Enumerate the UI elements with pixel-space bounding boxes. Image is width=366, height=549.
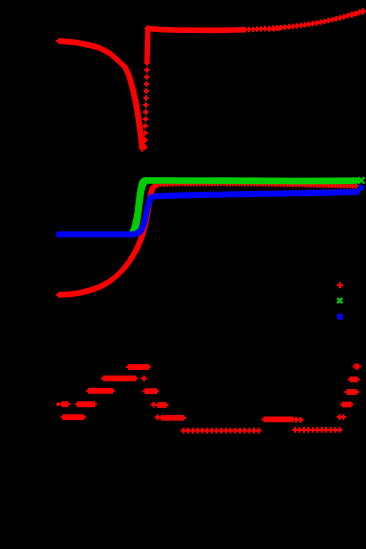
green end tick xyxy=(358,177,364,183)
bottom panel red plus clusters xyxy=(60,364,361,434)
green series xyxy=(130,178,360,237)
legend red plus xyxy=(337,282,343,288)
blue series xyxy=(56,189,360,237)
legend green cross xyxy=(337,298,342,303)
red series top panel xyxy=(56,8,366,297)
blue end tick xyxy=(358,185,364,191)
legend blue star xyxy=(337,314,343,320)
